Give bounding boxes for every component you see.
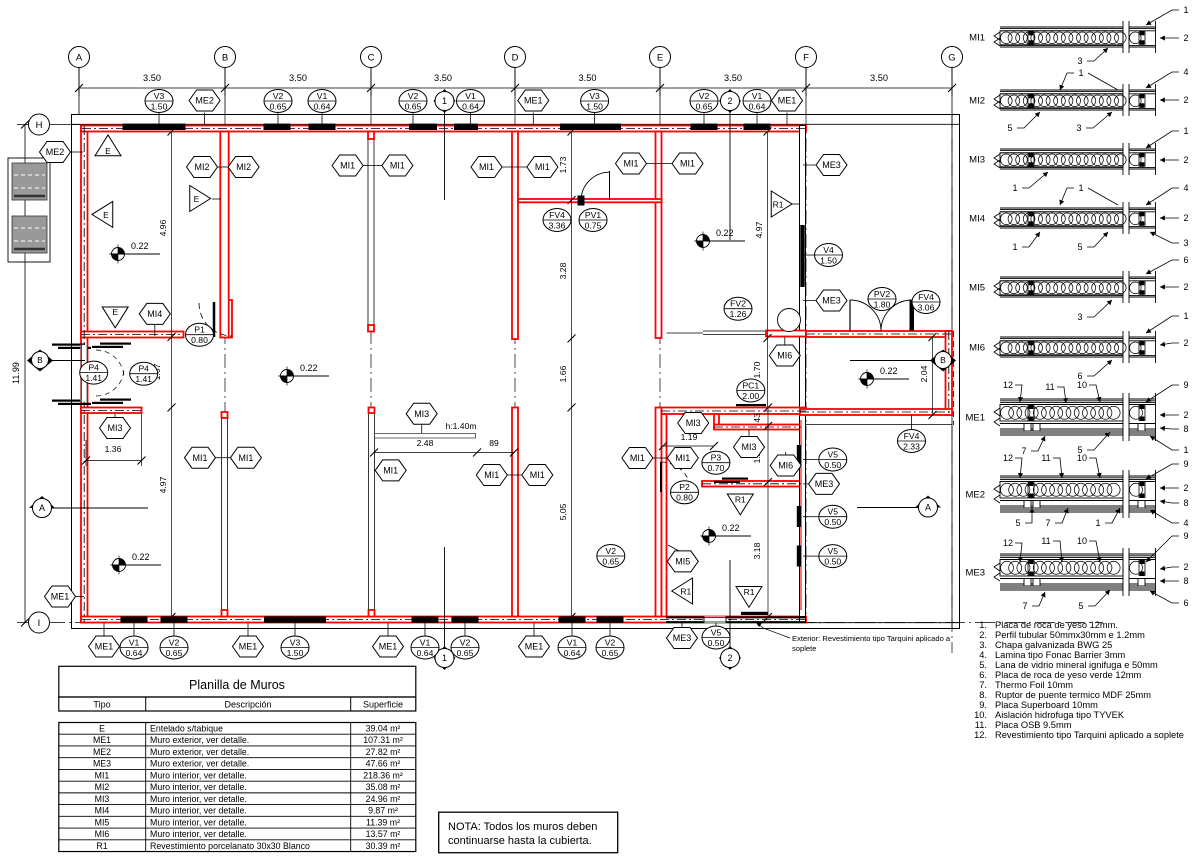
- level benchmark 0.22: [701, 523, 752, 546]
- svg-text:PC1: PC1: [742, 380, 759, 390]
- svg-text:2.48: 2.48: [417, 438, 434, 448]
- row marker A: [915, 496, 941, 518]
- low wall h:1.40m: [375, 434, 476, 439]
- grid line C: [370, 68, 372, 115]
- door PC1 sliding: [736, 404, 766, 406]
- wall MI4 room1 bottom: [81, 332, 184, 338]
- wall tag ME2: [189, 90, 220, 111]
- window FV4 annex top wall: [910, 300, 915, 331]
- svg-text:ME2: ME2: [965, 490, 985, 501]
- svg-text:1.41: 1.41: [85, 373, 102, 383]
- svg-text:10: 10: [1077, 453, 1087, 463]
- svg-text:107.31 m²: 107.31 m²: [363, 735, 403, 745]
- svg-text:E: E: [105, 146, 111, 156]
- wall tag ME3: [667, 628, 698, 649]
- level benchmark 0.22: [859, 366, 910, 389]
- svg-text:8.: 8.: [979, 690, 987, 700]
- wall MI1 at grid C upper: [368, 132, 374, 326]
- svg-text:1.: 1.: [979, 620, 987, 630]
- svg-text:Revestimiento porcelanato 30x3: Revestimiento porcelanato 30x30 Blanco: [150, 841, 310, 851]
- svg-text:1: 1: [1183, 126, 1188, 136]
- svg-text:Muro interior, ver detalle.: Muro interior, ver detalle.: [150, 829, 247, 839]
- svg-text:ME3: ME3: [815, 479, 834, 489]
- svg-text:MI1: MI1: [630, 453, 645, 463]
- svg-text:1.26: 1.26: [730, 309, 747, 319]
- svg-text:V1: V1: [420, 637, 431, 647]
- detail callout 8: [1160, 424, 1189, 434]
- wall MI6 bath mid: [702, 481, 801, 487]
- svg-text:MI2: MI2: [236, 162, 251, 172]
- svg-text:2.04: 2.04: [919, 365, 929, 382]
- svg-text:F: F: [803, 52, 809, 63]
- window bar top at x=704: [691, 124, 718, 130]
- svg-text:MI1: MI1: [484, 470, 499, 480]
- svg-text:R1: R1: [680, 587, 691, 597]
- section line 1-1: [444, 110, 446, 200]
- svg-text:0.75: 0.75: [585, 220, 602, 230]
- window bar top at x=277: [264, 124, 291, 130]
- row marker A: [29, 496, 55, 518]
- wall tag MI6: [769, 345, 800, 366]
- annex lower thin line: [806, 424, 952, 426]
- dim 2.04 annex: [932, 337, 934, 415]
- svg-text:PV2: PV2: [874, 289, 890, 299]
- svg-text:E: E: [99, 724, 105, 734]
- svg-text:0.65: 0.65: [696, 101, 713, 111]
- svg-text:MI6: MI6: [969, 343, 985, 354]
- grid bubble A: [69, 47, 90, 68]
- wall centerlines: [82, 128, 805, 130]
- finish tag R1: [736, 587, 762, 608]
- svg-text:7: 7: [1045, 518, 1050, 528]
- detail callout 7: [1022, 592, 1045, 611]
- svg-text:1: 1: [1183, 311, 1188, 321]
- svg-text:MI1: MI1: [530, 470, 545, 480]
- opening symbol P3/0.70: [702, 451, 730, 474]
- wall tag MI1: [382, 155, 413, 176]
- detail callout 4: [1146, 183, 1189, 205]
- opening symbol V1/0.64: [120, 636, 148, 659]
- svg-text:9: 9: [1183, 380, 1188, 390]
- detail callout 1: [1059, 183, 1083, 205]
- detail callout 2: [1160, 33, 1189, 43]
- svg-text:0.50: 0.50: [824, 557, 841, 567]
- row marker B: [930, 350, 956, 372]
- svg-text:0.64: 0.64: [314, 101, 331, 111]
- svg-text:NOTA: Todos los muros deben: NOTA: Todos los muros deben: [448, 821, 597, 833]
- svg-text:ME3: ME3: [965, 568, 985, 579]
- svg-text:V5: V5: [828, 449, 839, 459]
- svg-text:MI5: MI5: [675, 557, 690, 567]
- detail callout 8: [1160, 498, 1189, 508]
- svg-text:1.50: 1.50: [151, 101, 168, 111]
- svg-text:V1: V1: [129, 637, 140, 647]
- svg-text:Placa de roca de yeso verde 12: Placa de roca de yeso verde 12mm: [995, 670, 1142, 680]
- svg-text:0.65: 0.65: [602, 556, 619, 566]
- svg-text:39.04 m²: 39.04 m²: [366, 724, 401, 734]
- svg-text:11.39 m²: 11.39 m²: [366, 817, 400, 827]
- svg-text:1.36: 1.36: [105, 444, 122, 454]
- wall tag MI1: [672, 153, 703, 174]
- opening symbol V2/0.65: [596, 636, 624, 659]
- wall tag MI4: [139, 303, 170, 324]
- svg-text:10: 10: [1077, 536, 1087, 546]
- svg-text:3.50: 3.50: [289, 73, 307, 83]
- svg-text:Muro exterior, ver detalle.: Muro exterior, ver detalle.: [150, 735, 249, 745]
- wall MI1 at grid E lower: [656, 408, 662, 617]
- wall tag ME3: [809, 473, 840, 494]
- svg-text:1: 1: [1183, 445, 1188, 455]
- svg-text:3.50: 3.50: [870, 73, 888, 83]
- wall stub at P1 door: [226, 300, 232, 338]
- svg-text:9: 9: [1183, 459, 1188, 469]
- grid line A: [78, 68, 80, 115]
- svg-text:24.96 m²: 24.96 m²: [366, 794, 401, 804]
- detail callout 7: [1045, 508, 1068, 528]
- wall tag ME1: [519, 636, 550, 657]
- section marker 1: [434, 646, 456, 670]
- svg-text:0.65: 0.65: [602, 648, 619, 658]
- window bar V5 at y=455.5: [797, 445, 801, 466]
- svg-text:V2: V2: [699, 91, 710, 101]
- finish tag E: [102, 307, 128, 328]
- svg-text:3.18: 3.18: [752, 542, 762, 559]
- svg-text:MI1: MI1: [340, 161, 355, 171]
- svg-text:MI2: MI2: [95, 782, 110, 792]
- svg-text:1.50: 1.50: [586, 101, 603, 111]
- svg-text:11: 11: [1045, 382, 1054, 392]
- level benchmark 0.22: [111, 552, 162, 575]
- svg-text:ME3: ME3: [93, 759, 111, 769]
- svg-text:7: 7: [1021, 446, 1026, 456]
- dim 2.48 / 89: [374, 452, 514, 454]
- opening symbol V1/0.64: [308, 90, 336, 113]
- svg-text:1: 1: [442, 96, 447, 106]
- opening symbol V5/0.50: [819, 505, 847, 528]
- wall tag MI1: [527, 157, 558, 178]
- wall tag MI3: [678, 413, 709, 434]
- svg-text:0.65: 0.65: [457, 648, 474, 658]
- svg-text:ME1: ME1: [51, 592, 70, 602]
- svg-text:5: 5: [1015, 518, 1020, 528]
- opening V5 bottom (white): [704, 617, 726, 624]
- svg-text:12: 12: [1003, 538, 1013, 548]
- svg-text:V4: V4: [823, 245, 834, 255]
- dim 1.19: [663, 445, 714, 447]
- furniture stair/closet left: [8, 158, 50, 262]
- svg-text:3.50: 3.50: [579, 73, 597, 83]
- svg-text:E: E: [194, 194, 200, 204]
- wall C upper red cap top: [368, 132, 374, 140]
- wall MI1 at grid E upper: [656, 132, 662, 339]
- svg-text:MI3: MI3: [969, 155, 985, 166]
- svg-text:5: 5: [1078, 601, 1083, 611]
- grid bubble H: [29, 114, 50, 135]
- detail callout 12: [1003, 453, 1023, 478]
- window bar V5 at y=556: [797, 546, 801, 567]
- opening symbol V1/0.64: [457, 90, 485, 113]
- svg-text:12: 12: [1003, 453, 1013, 463]
- svg-text:0.70: 0.70: [708, 463, 725, 473]
- svg-text:ME2: ME2: [46, 147, 65, 157]
- svg-text:4: 4: [1183, 183, 1188, 193]
- window bar top at x=423: [409, 124, 437, 130]
- grid bubble D: [505, 47, 526, 68]
- opening symbol FV4/3.06: [912, 291, 940, 314]
- dim 4.97/1.70/43/1.28/3.18 right: [767, 131, 769, 407]
- svg-text:0.65: 0.65: [166, 648, 183, 658]
- svg-text:MI3: MI3: [414, 409, 429, 419]
- svg-text:4.97: 4.97: [158, 476, 168, 493]
- svg-text:E: E: [112, 307, 118, 317]
- svg-text:2: 2: [1183, 213, 1188, 223]
- svg-text:0.22: 0.22: [716, 228, 734, 238]
- svg-text:B: B: [37, 355, 43, 365]
- detail callout 7: [1021, 436, 1045, 456]
- grid line I: [45, 622, 1103, 624]
- svg-text:H: H: [36, 120, 43, 131]
- svg-text:4: 4: [1183, 518, 1188, 528]
- door P1 dashed swing: [199, 303, 232, 336]
- svg-text:MI1: MI1: [192, 453, 207, 463]
- wall tag ME1: [233, 636, 264, 657]
- svg-text:2: 2: [1183, 282, 1188, 292]
- svg-text:27.82 m²: 27.82 m²: [366, 747, 401, 757]
- svg-text:Muro interior, ver detalle.: Muro interior, ver detalle.: [150, 770, 247, 780]
- svg-text:FV4: FV4: [918, 292, 934, 302]
- svg-text:A: A: [39, 503, 45, 513]
- svg-text:Muro exterior, ver detalle.: Muro exterior, ver detalle.: [150, 759, 249, 769]
- svg-text:7: 7: [1022, 601, 1027, 611]
- svg-text:4.96: 4.96: [158, 219, 168, 236]
- dim 1.73/3.28/1.66/5.05 mid: [571, 131, 573, 617]
- wall tag ME3: [816, 155, 847, 176]
- svg-text:4.: 4.: [979, 650, 987, 660]
- svg-text:V1: V1: [465, 91, 476, 101]
- opening symbol V1/0.64: [743, 90, 771, 113]
- svg-text:MI1: MI1: [383, 466, 398, 476]
- detail callout 2: [1160, 562, 1189, 572]
- svg-text:V3: V3: [154, 91, 165, 101]
- finish tag E: [92, 201, 113, 227]
- opening symbol V5/0.50: [819, 545, 847, 568]
- wall bath right at F (black): [800, 414, 806, 617]
- svg-text:2: 2: [1183, 33, 1188, 43]
- svg-text:ME3: ME3: [822, 160, 841, 170]
- svg-text:ME1: ME1: [524, 96, 543, 106]
- svg-text:V3: V3: [290, 637, 301, 647]
- svg-text:3.50: 3.50: [143, 73, 161, 83]
- svg-text:8: 8: [1183, 576, 1188, 586]
- detail callout 1: [1012, 232, 1040, 252]
- svg-text:2: 2: [1183, 338, 1188, 348]
- svg-text:0.65: 0.65: [270, 101, 287, 111]
- detail callout 9: [1146, 459, 1189, 479]
- svg-text:V5: V5: [711, 627, 722, 637]
- svg-text:FV4: FV4: [904, 431, 920, 441]
- svg-text:1.70: 1.70: [752, 361, 762, 378]
- svg-text:2: 2: [1183, 410, 1188, 420]
- red accents on F bath wall: [800, 420, 802, 610]
- svg-text:Lamina tipo Fonac Barrier 3mm: Lamina tipo Fonac Barrier 3mm: [995, 650, 1125, 660]
- section marker 2: [719, 646, 741, 670]
- detail callout 2: [1160, 483, 1189, 493]
- dim 4.96 / 1.67 / 4.97 left: [171, 131, 173, 617]
- svg-text:V3: V3: [589, 91, 600, 101]
- laundry wall opening (white-out + black jambs): [80, 345, 88, 402]
- detail callout 11: [1041, 453, 1064, 478]
- svg-text:D: D: [512, 52, 519, 63]
- svg-text:1: 1: [1012, 242, 1017, 252]
- svg-text:0.64: 0.64: [564, 648, 581, 658]
- svg-text:1: 1: [1012, 183, 1017, 193]
- annex right dashed boundary: [953, 331, 955, 425]
- svg-text:3.28: 3.28: [558, 262, 568, 279]
- svg-text:218.36 m²: 218.36 m²: [363, 770, 403, 780]
- svg-text:R1: R1: [735, 494, 746, 504]
- svg-text:P2: P2: [679, 482, 690, 492]
- svg-text:V5: V5: [828, 507, 839, 517]
- wall MI1 at grid D lower: [512, 408, 518, 617]
- wall ME2/MI2 at grid B upper: [220, 132, 228, 338]
- detail callout 1: [1150, 436, 1189, 455]
- opening symbol V5/0.50: [702, 626, 730, 649]
- level benchmark 0.22: [695, 228, 746, 251]
- wall tag MI1: [185, 447, 216, 468]
- svg-text:4.97: 4.97: [754, 221, 764, 238]
- svg-text:0.22: 0.22: [722, 523, 740, 533]
- opening symbol V3/1.50: [281, 636, 309, 659]
- svg-text:2: 2: [1183, 95, 1188, 105]
- svg-text:Planilla de Muros: Planilla de Muros: [189, 678, 285, 692]
- opening symbol V2/0.65: [597, 545, 625, 568]
- svg-text:3.: 3.: [979, 640, 987, 650]
- row marker B: [27, 350, 53, 372]
- opening symbol FV2/1.26: [724, 297, 752, 320]
- svg-text:1.80: 1.80: [874, 299, 891, 309]
- detail callout 6: [1150, 591, 1189, 608]
- svg-text:0.64: 0.64: [749, 101, 766, 111]
- svg-text:MI1: MI1: [390, 161, 405, 171]
- svg-text:V5: V5: [828, 546, 839, 556]
- svg-text:0.22: 0.22: [132, 552, 150, 562]
- door leaf PV1 room D-E: [578, 196, 585, 206]
- svg-text:V2: V2: [273, 91, 284, 101]
- svg-text:ME1: ME1: [95, 642, 114, 652]
- grid line H stub: [45, 124, 82, 126]
- svg-text:1.50: 1.50: [820, 255, 837, 265]
- wall MI3 bath second: [714, 425, 801, 430]
- wall tag MI1: [622, 448, 653, 469]
- svg-text:V2: V2: [408, 91, 419, 101]
- svg-text:A: A: [76, 52, 83, 63]
- wall MI1 C lower red cap: [369, 408, 375, 414]
- wall tag MI3: [100, 418, 131, 439]
- svg-text:Muro interior, ver detalle.: Muro interior, ver detalle.: [150, 794, 247, 804]
- svg-text:1: 1: [1078, 183, 1083, 193]
- svg-text:MI1: MI1: [623, 159, 638, 169]
- svg-text:1: 1: [1078, 68, 1083, 78]
- svg-text:6: 6: [1183, 598, 1188, 608]
- svg-text:9.87 m²: 9.87 m²: [368, 806, 398, 816]
- wall at E bath left: [662, 414, 667, 617]
- window bar top at x=757: [744, 124, 771, 130]
- bath top thin line left: [667, 332, 704, 334]
- svg-text:3: 3: [1077, 312, 1082, 322]
- svg-text:G: G: [948, 52, 955, 63]
- grid line G: [951, 68, 953, 115]
- wall tag ME3: [816, 290, 847, 311]
- svg-text:0.64: 0.64: [462, 101, 479, 111]
- svg-text:1.73: 1.73: [558, 156, 568, 173]
- svg-text:0.22: 0.22: [131, 241, 149, 251]
- detail callout 1: [1146, 311, 1189, 333]
- svg-text:MI4: MI4: [969, 214, 985, 225]
- svg-text:Muro interior, ver detalle.: Muro interior, ver detalle.: [150, 817, 247, 827]
- svg-text:4: 4: [1183, 67, 1188, 77]
- opening symbol P4/1.41: [130, 362, 158, 385]
- svg-text:MI6: MI6: [95, 829, 110, 839]
- grid bubble C: [361, 47, 382, 68]
- wall MI1 at grid D upper: [512, 132, 518, 340]
- svg-text:Superficie: Superficie: [363, 700, 403, 710]
- svg-text:MI5: MI5: [969, 283, 985, 294]
- svg-text:3.50: 3.50: [724, 73, 742, 83]
- svg-text:FV2: FV2: [730, 299, 746, 309]
- detail callout 11: [1041, 536, 1064, 562]
- svg-text:6: 6: [1183, 255, 1188, 265]
- detail callout 2: [1160, 410, 1189, 420]
- svg-text:B: B: [940, 355, 946, 365]
- svg-text:P4: P4: [138, 364, 149, 374]
- svg-text:11.: 11.: [975, 720, 987, 730]
- svg-text:E: E: [657, 52, 663, 63]
- svg-text:Exterior: Revestimiento tipo T: Exterior: Revestimiento tipo Tarquini ap…: [792, 634, 951, 643]
- wall annex top: [806, 331, 952, 337]
- svg-text:Muro exterior, ver detalle.: Muro exterior, ver detalle.: [150, 747, 249, 757]
- svg-text:Revestimiento tipo Tarquini ap: Revestimiento tipo Tarquini aplicado a s…: [995, 730, 1184, 740]
- grid line F: [805, 68, 807, 115]
- svg-text:MI1: MI1: [675, 453, 690, 463]
- detail callout 5: [1007, 112, 1040, 133]
- svg-text:0.22: 0.22: [300, 363, 318, 373]
- door PV1 room D-E swing arc: [581, 172, 610, 201]
- wall MI3 bath top: [662, 408, 807, 415]
- detail callout 3: [1076, 112, 1112, 133]
- svg-text:3: 3: [1183, 238, 1188, 248]
- opening symbol V2/0.65: [399, 90, 427, 113]
- wall tag ME2: [40, 142, 71, 163]
- svg-text:2: 2: [727, 653, 732, 663]
- svg-text:MI1: MI1: [969, 33, 985, 44]
- section line 2-2: [729, 110, 731, 240]
- wall MI1 at grid C lower: [369, 413, 375, 617]
- opening symbol P4/1.41: [80, 361, 108, 384]
- svg-text:0.65: 0.65: [405, 101, 422, 111]
- grid bubble B: [215, 47, 236, 68]
- svg-text:ME3: ME3: [673, 633, 692, 643]
- roof overhang outline: [72, 115, 960, 629]
- table Planilla de Muros: [59, 666, 416, 697]
- wall MI1 at grid B lower: [222, 418, 228, 617]
- wall tag MI1: [476, 465, 507, 486]
- detail callout 2: [1160, 282, 1189, 292]
- svg-text:12: 12: [1003, 380, 1013, 390]
- svg-text:P3: P3: [711, 453, 722, 463]
- top dimension line 3.50 x6: [79, 87, 952, 89]
- svg-text:ME2: ME2: [195, 96, 214, 106]
- svg-text:0.80: 0.80: [676, 493, 693, 503]
